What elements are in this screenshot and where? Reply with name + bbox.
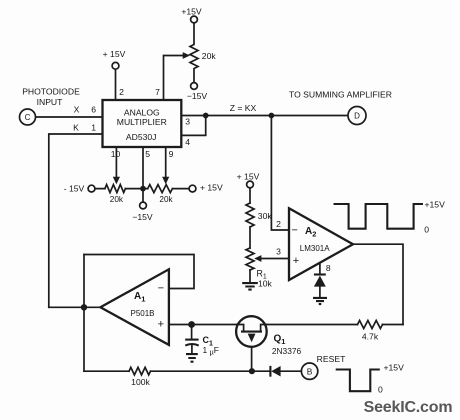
terminal +15V 30k <box>247 181 254 188</box>
svg-text:2: 2 <box>119 87 124 97</box>
node Z junction dot pin3/pin4 <box>203 113 209 119</box>
terminal D to summing amplifier <box>348 107 366 125</box>
svg-text:10: 10 <box>111 149 121 159</box>
ground below pin 8 diode <box>313 298 327 304</box>
wire pin 10 to left trim pot <box>115 147 117 177</box>
wiper arrow R1 <box>254 255 261 262</box>
svg-text:K: K <box>73 123 79 133</box>
diode reset line <box>269 366 271 377</box>
terminal C photodiode input <box>20 109 36 125</box>
wire A2 output to 4.7k corner <box>353 244 403 324</box>
resistor 30k <box>246 203 254 227</box>
svg-text:+: + <box>293 255 299 267</box>
svg-text:D: D <box>354 112 360 121</box>
wire pin 7 to top pot wiper <box>164 56 184 101</box>
node A1 summing junction <box>81 304 87 310</box>
svg-text:100k: 100k <box>131 377 150 387</box>
svg-text:20k: 20k <box>110 195 124 204</box>
resistor 20k top potentiometer <box>190 23 198 83</box>
resistor R1 10k potentiometer <box>246 248 254 270</box>
wire pin 4 to Z node <box>181 116 205 136</box>
svg-text:3: 3 <box>276 247 281 257</box>
svg-text:B: B <box>307 367 313 377</box>
terminal +15V top pot <box>191 16 198 23</box>
svg-text:1 µF: 1 µF <box>203 345 219 357</box>
wire photodiode input to pin 6 <box>36 116 103 118</box>
svg-text:−: − <box>158 283 164 295</box>
terminal -15V top pot <box>191 83 198 90</box>
node C1 junction <box>188 321 195 328</box>
svg-text:Z = KX: Z = KX <box>230 103 257 113</box>
svg-text:X: X <box>74 105 80 115</box>
resistor 4.7k <box>358 321 383 329</box>
node Q1 source junction <box>249 368 255 374</box>
wire C1 top lead <box>191 325 193 339</box>
svg-text:0: 0 <box>424 225 429 235</box>
wire A2 pin 8 leads <box>319 263 321 297</box>
resistor 20k left trim pot <box>105 185 126 193</box>
svg-text:+15V: +15V <box>384 363 405 373</box>
wire bottom reset line with 100k <box>84 370 301 372</box>
wire pin 5 to -15V terminal <box>142 147 144 202</box>
svg-text:4.7k: 4.7k <box>362 332 379 342</box>
wiper arrow right trim pot <box>162 177 169 184</box>
svg-text:5: 5 <box>145 149 150 159</box>
wire Q1 source down to bottom line <box>251 333 253 370</box>
svg-text:AD530J: AD530J <box>126 132 157 142</box>
op-amp A2 LM301A <box>289 208 353 280</box>
svg-text:- 15V: - 15V <box>64 184 85 194</box>
wire trim pot row <box>95 188 189 190</box>
wire A1 feedback loop <box>84 255 194 289</box>
svg-text:+15V: +15V <box>181 7 202 17</box>
wire A1 plus input to Q1 <box>169 324 236 326</box>
wire Q1 right gate through 4.7k <box>267 324 403 326</box>
wire C1 bottom lead <box>191 346 193 353</box>
svg-text:+15V: +15V <box>425 199 446 209</box>
svg-text:MULTIPLIER: MULTIPLIER <box>117 117 167 127</box>
svg-text:C: C <box>25 113 31 122</box>
svg-text:0: 0 <box>378 385 383 395</box>
terminal left trim pot <box>88 185 95 192</box>
svg-text:9: 9 <box>169 149 174 159</box>
svg-text:10k: 10k <box>258 278 273 288</box>
wire +15V supply to pin 2 <box>115 69 117 100</box>
svg-text:20k: 20k <box>202 51 217 61</box>
svg-text:PHOTODIODE: PHOTODIODE <box>22 87 80 97</box>
resistor 20k right trim pot <box>148 185 173 193</box>
svg-text:−15V: −15V <box>187 91 208 101</box>
capacitor C1 <box>185 339 198 341</box>
svg-text:LM301A: LM301A <box>300 244 330 253</box>
analog multiplier AD530J box <box>103 100 182 147</box>
terminal right trim pot <box>189 185 196 192</box>
wire K pin1 run from multiplier to A1 node <box>49 134 103 307</box>
svg-text:7: 7 <box>155 87 160 97</box>
transistor Q1 2N3376 <box>236 316 267 347</box>
svg-text:+ 15V: + 15V <box>200 182 223 192</box>
svg-text:+ 15V: + 15V <box>237 172 260 182</box>
node Z junction dot to A2 <box>269 113 275 119</box>
node trim pot center junction <box>140 186 146 192</box>
svg-text:TO SUMMING AMPLIFIER: TO SUMMING AMPLIFIER <box>289 90 392 100</box>
wire A1 node vertical to bottom line <box>83 255 85 372</box>
svg-text:4: 4 <box>185 137 190 147</box>
wire R1 wiper to A2 pin 3 <box>261 258 290 260</box>
terminal +15V pin 2 <box>112 62 119 69</box>
svg-text:20k: 20k <box>159 195 173 204</box>
svg-text:1: 1 <box>91 123 96 133</box>
wire pin 9 to right trim pot <box>165 147 167 177</box>
wire Z node down to A2 pin 2 <box>271 116 289 231</box>
diode at A2 pin 8 <box>314 273 326 275</box>
svg-text:SeekIC.com: SeekIC.com <box>364 399 453 416</box>
svg-text:+: + <box>158 319 164 331</box>
svg-text:RESET: RESET <box>317 354 346 364</box>
op-amp A1 P501B <box>100 269 168 345</box>
svg-text:3: 3 <box>185 117 190 127</box>
svg-text:6: 6 <box>91 105 96 115</box>
waveform reset pulse <box>336 370 380 392</box>
terminal -15V trim center <box>140 202 147 209</box>
terminal B reset <box>301 363 317 379</box>
svg-text:INPUT: INPUT <box>37 97 64 107</box>
svg-text:ANALOG: ANALOG <box>124 108 160 118</box>
wire +15V to 30k to R1 to ground <box>249 188 251 282</box>
svg-text:−: − <box>291 225 297 237</box>
wiper arrow top pot <box>183 52 190 59</box>
svg-text:+ 15V: + 15V <box>103 49 126 59</box>
wiper arrow left trim pot <box>113 177 120 184</box>
svg-text:2N3376: 2N3376 <box>272 346 302 356</box>
svg-text:8: 8 <box>326 263 331 273</box>
ground below C1 <box>186 354 198 362</box>
wire Z=KX output line pin 3 to terminal D <box>181 115 348 117</box>
resistor 100k <box>129 367 151 375</box>
svg-text:30k: 30k <box>258 211 273 221</box>
svg-text:2: 2 <box>276 219 281 229</box>
wire A1 output node to apex <box>49 306 101 308</box>
svg-text:P501B: P501B <box>130 309 154 318</box>
waveform A2 output square wave <box>334 204 424 229</box>
ground below R1 <box>242 283 258 290</box>
svg-text:−15V: −15V <box>132 212 153 222</box>
